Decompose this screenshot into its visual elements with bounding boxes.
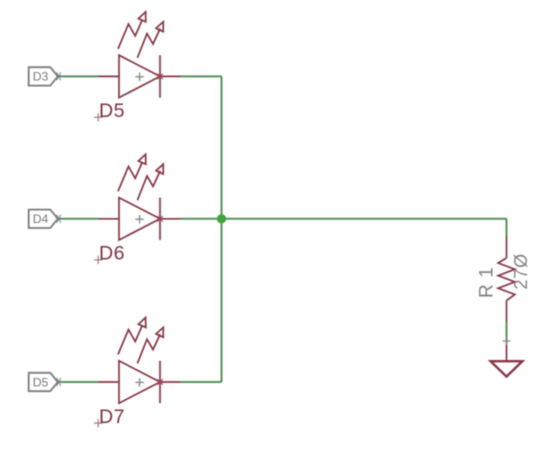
svg-text:27Ø: 27Ø — [511, 253, 531, 289]
svg-text:R1: R1 — [477, 261, 498, 298]
svg-text:D5: D5 — [99, 100, 125, 122]
svg-text:D6: D6 — [99, 243, 125, 265]
svg-text:D7: D7 — [99, 406, 125, 428]
svg-text:D5: D5 — [33, 375, 49, 389]
svg-text:D3: D3 — [33, 70, 49, 84]
svg-text:D4: D4 — [33, 212, 49, 226]
